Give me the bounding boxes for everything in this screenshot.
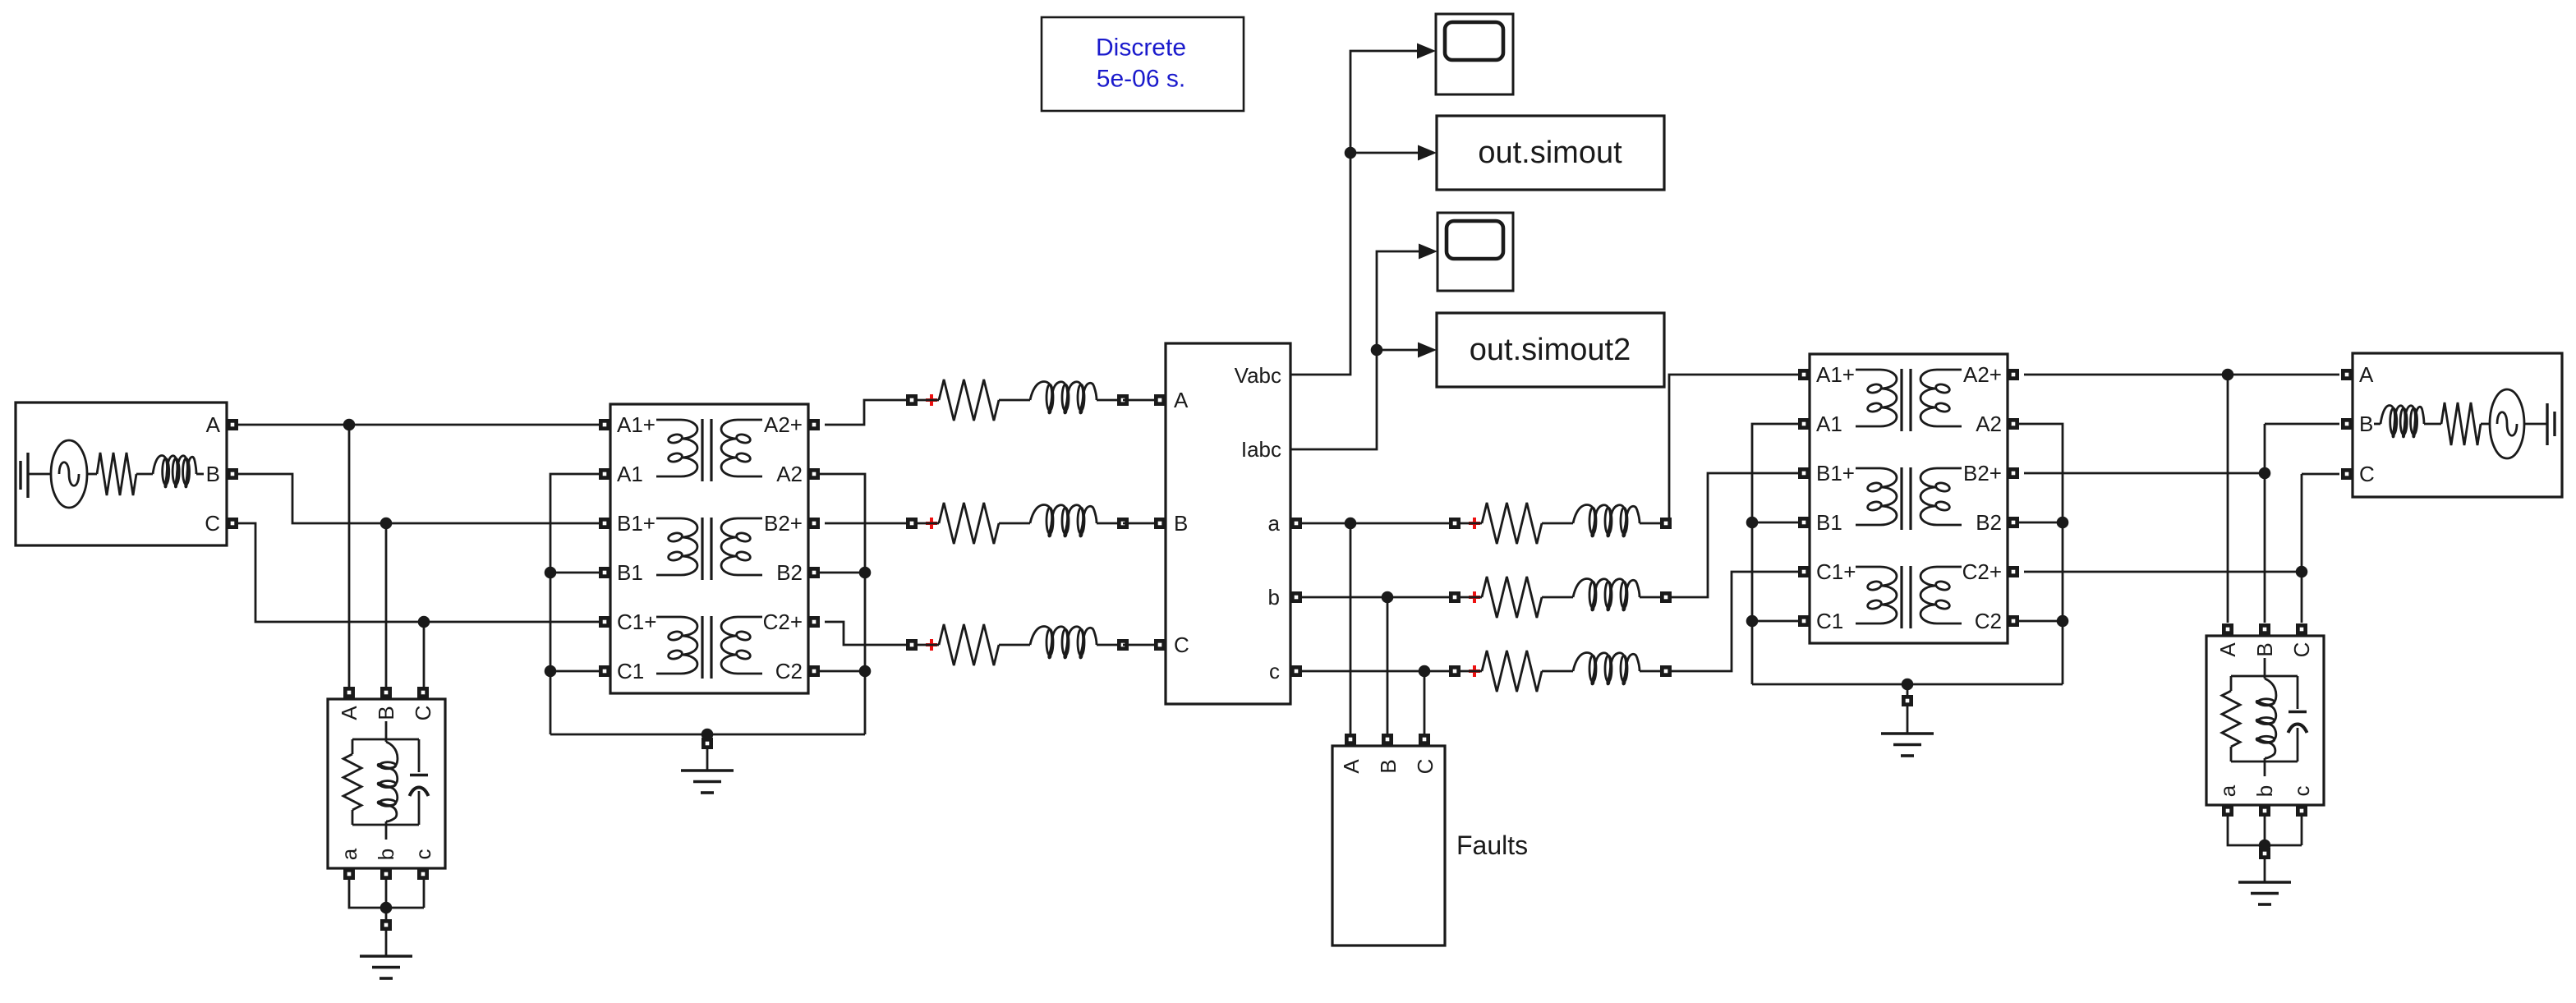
measurement label a bbox=[1268, 511, 1281, 536]
V1 pin label C bbox=[205, 511, 220, 536]
port C of V1 bbox=[227, 518, 238, 529]
svg-text:A1+: A1+ bbox=[617, 412, 655, 437]
T1 right neutral junction C2 bbox=[819, 665, 871, 678]
three-phase RLC load 1 icon B stub top bbox=[385, 721, 388, 742]
transformer T1 core phase 2 bbox=[702, 518, 711, 580]
ground stem under load2 bbox=[2264, 859, 2266, 882]
battery symbol inside V1 bbox=[21, 453, 51, 498]
wire B riser and drop bbox=[2265, 424, 2339, 623]
transformer T2 labels B1+/B2+ bbox=[1816, 461, 2002, 485]
svg-text:c: c bbox=[2289, 786, 2314, 797]
RL branch phase c resistor bbox=[1482, 651, 1542, 692]
RL branch phase A lead-in wire bbox=[918, 399, 939, 402]
arrow into out.simout bbox=[1418, 145, 1437, 161]
wire RL-C to measurement C bbox=[1123, 644, 1154, 646]
svg-text:C2+: C2+ bbox=[1962, 559, 2002, 584]
wire RL-A to measurement A bbox=[1123, 399, 1154, 402]
T2 ground symbol bbox=[1881, 734, 1934, 756]
junction Iabc bbox=[1371, 344, 1383, 357]
wire RL-B to measurement B bbox=[1123, 522, 1154, 525]
svg-text:B1: B1 bbox=[1816, 510, 1842, 535]
RL branch phase b red plus bbox=[1469, 591, 1480, 603]
measurement port c bbox=[1290, 665, 1302, 677]
measurement port C bbox=[1154, 639, 1166, 651]
measurement port B bbox=[1154, 518, 1166, 529]
transformer T2 left port C1 bbox=[1798, 615, 1810, 627]
svg-text:A: A bbox=[337, 706, 361, 720]
transformer T2 core phase 2 bbox=[1902, 467, 1911, 530]
RL branch phase A resistor bbox=[939, 380, 999, 421]
svg-text:C1+: C1+ bbox=[1816, 559, 1856, 584]
svg-text:C1: C1 bbox=[617, 659, 644, 683]
junction B to load2 bbox=[2259, 467, 2271, 480]
svg-text:C: C bbox=[2359, 462, 2375, 486]
transformer T2 right port C2+ bbox=[2008, 566, 2019, 577]
three-phase RLC load 1 icon capacitor plate bbox=[410, 739, 428, 775]
transformer T2 core phase 3 bbox=[1902, 566, 1911, 628]
T1 left neutral junction B1 bbox=[545, 567, 599, 579]
ground symbol under load2 bbox=[2238, 882, 2291, 904]
T1 ground stem bbox=[706, 749, 709, 771]
svg-text:Faults: Faults bbox=[1456, 830, 1528, 860]
T2 ground port bbox=[1902, 695, 1913, 706]
wire Vabc to scope1 bbox=[1290, 51, 1417, 375]
RL branch phase C mid wire bbox=[999, 644, 1030, 646]
transformer T2 left port B1+ bbox=[1798, 467, 1810, 479]
RL branch phase B resistor bbox=[939, 503, 999, 544]
wire T1.C2+ to RL branch C bbox=[825, 622, 906, 645]
T2 neutral bottom wire bbox=[1752, 683, 2063, 686]
wire c drop to Faults C bbox=[1424, 671, 1426, 734]
transformer T1 right port A2+ bbox=[808, 419, 820, 430]
three-phase RLC load 2 top port A bbox=[2222, 623, 2233, 635]
wire Iabc to scope2 bbox=[1290, 251, 1419, 449]
svg-text:C: C bbox=[2289, 642, 2314, 658]
scope block Scope1 bbox=[1436, 14, 1513, 94]
RL branch phase b resistor bbox=[1482, 577, 1542, 618]
junction phase C to load1 bbox=[418, 616, 430, 628]
RL branch phase B red plus bbox=[926, 518, 937, 529]
Faults port A bbox=[1345, 734, 1356, 745]
transformer T2 primary winding phase 3 bbox=[1856, 567, 1897, 623]
transformer T1 labels B1+/B2+ bbox=[617, 511, 803, 536]
RL branch phase A lead-out wire bbox=[1097, 399, 1117, 402]
RL branch phase C lead-out wire bbox=[1097, 644, 1117, 646]
wire Iabc branch to out.simout2 bbox=[1377, 349, 1418, 352]
transformer T1 labels C1/C2 bbox=[617, 659, 803, 683]
port C of V2 bbox=[2341, 468, 2353, 480]
wire phase B: V1.B to T1.B1+ bbox=[238, 474, 600, 523]
wire phase C drop to load1 C bbox=[423, 622, 425, 687]
transformer T1 left port B1 bbox=[599, 567, 610, 578]
V2 pin label A bbox=[2359, 362, 2374, 387]
wire Vabc branch to out.simout bbox=[1350, 152, 1418, 154]
transformer T2 right port C2 bbox=[2008, 615, 2019, 627]
transformer T1 right port B2+ bbox=[808, 518, 820, 529]
T1 right neutral vertical bbox=[819, 474, 865, 734]
RL branch phase c red plus bbox=[1469, 665, 1480, 677]
AC source symbol inside V2 bbox=[2490, 389, 2524, 458]
svg-text:A: A bbox=[1174, 388, 1189, 412]
load1 neutral junction bbox=[380, 902, 393, 919]
svg-text:A1: A1 bbox=[617, 462, 643, 486]
out.simout2 block bbox=[1437, 313, 1664, 387]
RL branch phase B lead-out wire bbox=[1097, 522, 1117, 525]
transformer T2 labels C1/C2 bbox=[1816, 609, 2002, 633]
svg-text:Vabc: Vabc bbox=[1235, 363, 1281, 388]
RL branch phase c right port bbox=[1660, 665, 1672, 677]
transformer T1 secondary winding phase 1 bbox=[721, 420, 762, 476]
transformer T1 labels C1+/C2+ bbox=[617, 610, 803, 634]
three-phase RLC load 2 bottom port c bbox=[2296, 805, 2307, 817]
transformer T1 secondary winding phase 2 bbox=[721, 518, 762, 575]
transformer T2 right port B2 bbox=[2008, 517, 2019, 528]
svg-text:c: c bbox=[411, 849, 435, 860]
svg-text:a: a bbox=[337, 848, 361, 860]
transformer T1 labels A1+/A2+ bbox=[617, 412, 803, 437]
svg-text:B2: B2 bbox=[1976, 510, 2002, 535]
RL branch phase b inductor bbox=[1573, 579, 1640, 611]
svg-text:A: A bbox=[206, 412, 221, 437]
three-phase RLC load 2 icon bottom rail bbox=[2231, 761, 2298, 763]
three-phase RLC load 1 bottom port c bbox=[417, 868, 429, 880]
arrow into out.simout2 bbox=[1418, 343, 1437, 358]
svg-text:Discrete: Discrete bbox=[1096, 35, 1186, 62]
RL branch phase c lead-in wire bbox=[1460, 670, 1482, 673]
measurement label Iabc bbox=[1241, 437, 1281, 462]
junction A to load2 bbox=[2222, 369, 2234, 381]
three-phase RLC load 1 top labels A B C bbox=[337, 706, 435, 721]
transformer T2 secondary winding phase 3 bbox=[1920, 567, 1962, 623]
three-phase RLC load 2 bottom port b bbox=[2259, 805, 2270, 817]
transformer T1 secondary winding phase 3 bbox=[721, 617, 762, 674]
load1 neutral wires bbox=[349, 880, 424, 908]
transformer T2 left port B1 bbox=[1798, 517, 1810, 528]
svg-text:c: c bbox=[1269, 659, 1280, 683]
T2 left neutral junction C1 bbox=[1746, 615, 1798, 628]
transformer T1 labels B1/B2 bbox=[617, 560, 803, 585]
svg-text:C1: C1 bbox=[1816, 609, 1843, 633]
junction b to Faults bbox=[1382, 591, 1394, 604]
junction a to Faults bbox=[1345, 518, 1357, 530]
three-phase RLC load 1 top port C bbox=[417, 687, 429, 698]
wire T2.B2+ row bbox=[2024, 472, 2265, 475]
transformer T2 right port B2+ bbox=[2008, 467, 2019, 479]
three-phase RLC load 2 bottom labels a b c bbox=[2215, 784, 2314, 797]
junction c to Faults bbox=[1419, 665, 1431, 678]
RL branch phase C red plus bbox=[926, 639, 937, 651]
svg-text:B1+: B1+ bbox=[1816, 461, 1855, 485]
port A of V2 bbox=[2341, 369, 2353, 380]
three-phase RLC load 1 bottom port a bbox=[343, 868, 355, 880]
svg-text:A1: A1 bbox=[1816, 412, 1842, 436]
T1 right neutral junction B2 bbox=[819, 567, 871, 579]
three-phase RLC load 2 icon inductor L bbox=[2256, 679, 2276, 761]
transformer T2 labels A1+/A2+ bbox=[1816, 362, 2002, 387]
wire T2.C2+ row bbox=[2024, 571, 2302, 573]
junction C to load2 bbox=[2296, 566, 2308, 578]
wire a drop to Faults A bbox=[1350, 523, 1352, 734]
svg-text:A2+: A2+ bbox=[764, 412, 803, 437]
svg-text:B2+: B2+ bbox=[764, 511, 803, 536]
T2 neutral junction to ground bbox=[1902, 679, 1914, 695]
wire phase A: V1.A to T1.A1+ bbox=[238, 424, 600, 426]
RL branch phase a left port bbox=[1449, 518, 1460, 529]
transformer T2 secondary winding phase 2 bbox=[1920, 468, 1962, 525]
three-phase RLC load 1 icon B stub bottom bbox=[385, 825, 388, 840]
three-phase source block V1 bbox=[16, 403, 227, 545]
svg-text:B: B bbox=[1174, 511, 1188, 536]
battery symbol inside V2 bbox=[2524, 403, 2555, 445]
svg-text:a: a bbox=[1268, 511, 1281, 536]
wire phase A drop to load1 A bbox=[348, 425, 351, 687]
measurement label B bbox=[1174, 511, 1188, 536]
three-phase RLC load 2 top port C bbox=[2296, 623, 2307, 635]
Faults labels A B C bbox=[1339, 759, 1437, 775]
T1 left neutral junction C1 bbox=[545, 665, 599, 678]
transformer T2 labels C1+/C2+ bbox=[1816, 559, 2002, 584]
svg-text:B: B bbox=[2252, 642, 2277, 656]
svg-text:A: A bbox=[2359, 362, 2374, 387]
RL branch phase B left port bbox=[906, 518, 918, 529]
three-phase RLC load 2 top port B bbox=[2259, 623, 2270, 635]
transformer T1 left port C1+ bbox=[599, 616, 610, 628]
svg-text:5e-06 s.: 5e-06 s. bbox=[1097, 66, 1185, 93]
RL branch phase B mid wire bbox=[999, 522, 1030, 525]
transformer T2 primary winding phase 1 bbox=[1856, 370, 1897, 426]
svg-text:C1+: C1+ bbox=[617, 610, 656, 634]
wire phase B drop to load1 B bbox=[385, 523, 388, 687]
RL branch phase B inductor bbox=[1030, 505, 1097, 537]
svg-text:B: B bbox=[374, 706, 398, 720]
svg-text:C: C bbox=[411, 706, 435, 721]
wire C riser and drop bbox=[2302, 474, 2339, 623]
RL branch phase c mid wire bbox=[1542, 670, 1573, 673]
T2 left neutral junction B1 bbox=[1746, 517, 1798, 529]
measurement label Vabc bbox=[1235, 363, 1281, 388]
RL branch phase a lead-in wire bbox=[1460, 522, 1482, 525]
port B of V1 bbox=[227, 468, 238, 480]
wire phase C: V1.C to T1.C1+ bbox=[238, 523, 600, 622]
transformer T2 right port A2 bbox=[2008, 418, 2019, 430]
Faults port C bbox=[1419, 734, 1430, 745]
measurement port A bbox=[1154, 394, 1166, 406]
measurement port a bbox=[1290, 518, 1302, 529]
RL branch phase c lead-out wire bbox=[1640, 670, 1660, 673]
RL branch phase A left port bbox=[906, 394, 918, 406]
port B of V2 bbox=[2341, 418, 2353, 430]
powergui block (Discrete 5e-06 s.) bbox=[1042, 17, 1244, 111]
arrow into scope2 bbox=[1419, 244, 1437, 260]
RL branch phase A right port bbox=[1117, 394, 1129, 406]
measurement label c bbox=[1269, 659, 1280, 683]
RL branch phase b left port bbox=[1449, 591, 1460, 603]
V1 pin label A bbox=[206, 412, 221, 437]
three-phase RLC load 2 icon top rail bbox=[2231, 675, 2298, 678]
Faults block box bbox=[1332, 746, 1445, 945]
T2 ground stem bbox=[1907, 706, 1909, 734]
three-phase RLC load 2 top labels A B C bbox=[2215, 642, 2314, 658]
RL branch phase c inductor bbox=[1573, 653, 1640, 685]
svg-text:Iabc: Iabc bbox=[1241, 437, 1281, 462]
ground port under load1 bbox=[380, 919, 392, 931]
RL branch phase C resistor bbox=[939, 624, 999, 665]
svg-text:a: a bbox=[2215, 784, 2240, 797]
RL branch phase C lead-in wire bbox=[918, 644, 939, 646]
three-phase RLC load 1 icon resistor R bbox=[343, 739, 361, 825]
T1 left neutral vertical bbox=[550, 474, 599, 734]
transformer T2 box bbox=[1810, 354, 2008, 643]
RL branch phase b mid wire bbox=[1542, 596, 1573, 599]
three-phase RLC load 2 icon resistor R bbox=[2222, 676, 2240, 761]
transformer T1 right port C2+ bbox=[808, 616, 820, 628]
transformer T2 left port A1+ bbox=[1798, 369, 1810, 380]
transformer T2 secondary winding phase 1 bbox=[1920, 370, 1962, 426]
RL branch phase C inductor bbox=[1030, 627, 1097, 659]
T1 neutral bottom wire bbox=[550, 734, 865, 736]
transformer T1 right port A2 bbox=[808, 468, 820, 480]
svg-text:B2+: B2+ bbox=[1963, 461, 2002, 485]
svg-text:A2+: A2+ bbox=[1963, 362, 2002, 387]
series inductor inside V2 bbox=[2374, 406, 2441, 438]
three-phase RLC load 2 icon arrow bbox=[2288, 725, 2307, 762]
three-phase RLC load 2 bottom port a bbox=[2222, 805, 2233, 817]
transformer T1 primary winding phase 3 bbox=[656, 617, 697, 674]
transformer T1 left port C1 bbox=[599, 665, 610, 677]
T1 neutral junction to ground bbox=[701, 729, 714, 741]
T2 left neutral vertical bbox=[1752, 424, 1798, 684]
series inductor inside V1 bbox=[153, 456, 204, 488]
RL branch phase b right port bbox=[1660, 591, 1672, 603]
transformer T1 right port C2 bbox=[808, 665, 820, 677]
wire T1.A2+ to RL branch A bbox=[825, 400, 906, 425]
RL branch phase a right port bbox=[1660, 518, 1672, 529]
out.simout block bbox=[1437, 116, 1664, 190]
RL branch phase A red plus bbox=[926, 394, 937, 406]
svg-text:C2: C2 bbox=[775, 659, 803, 683]
transformer T2 primary winding phase 2 bbox=[1856, 468, 1897, 525]
ground symbol under load1 bbox=[360, 956, 412, 978]
RL branch phase B right port bbox=[1117, 518, 1129, 529]
RL branch phase c left port bbox=[1449, 665, 1460, 677]
T2 right neutral vertical bbox=[2018, 424, 2063, 684]
transformer T2 left port A1 bbox=[1798, 418, 1810, 430]
RL branch phase B lead-in wire bbox=[918, 522, 939, 525]
svg-text:B: B bbox=[206, 462, 220, 486]
RL branch phase a red plus bbox=[1469, 518, 1480, 529]
wire T1.B2+ to RL branch B bbox=[825, 522, 906, 525]
svg-text:C: C bbox=[205, 511, 220, 536]
RL branch phase b lead-in wire bbox=[1460, 596, 1482, 599]
scope block Scope2 bbox=[1437, 213, 1513, 291]
transformer T1 box bbox=[610, 404, 808, 693]
RL branch phase C left port bbox=[906, 639, 918, 651]
V1 pin label B bbox=[206, 462, 220, 486]
svg-text:A2: A2 bbox=[776, 462, 803, 486]
svg-text:b: b bbox=[374, 849, 398, 860]
RL branch phase b lead-out wire bbox=[1640, 596, 1660, 599]
svg-text:C2+: C2+ bbox=[763, 610, 803, 634]
wire a row bbox=[1302, 522, 1449, 525]
three-phase RLC load 2 icon B stub top bbox=[2264, 658, 2266, 679]
T1 ground symbol bbox=[681, 771, 734, 793]
AC source symbol inside V1 bbox=[51, 440, 87, 508]
RL branch phase a inductor bbox=[1573, 505, 1640, 537]
svg-text:b: b bbox=[2252, 785, 2277, 797]
transformer T1 right port B2 bbox=[808, 567, 820, 578]
transformer T1 primary winding phase 1 bbox=[656, 420, 697, 476]
svg-text:A1+: A1+ bbox=[1816, 362, 1855, 387]
transformer T2 right port A2+ bbox=[2008, 369, 2019, 380]
transformer T1 left port A1 bbox=[599, 468, 610, 480]
svg-text:B1: B1 bbox=[617, 560, 643, 585]
load2 neutral wires bbox=[2228, 817, 2302, 845]
three-phase RLC load 1 icon inductor L bbox=[378, 742, 398, 825]
svg-text:B: B bbox=[2359, 412, 2373, 436]
wire T2.A2+ row bbox=[2024, 374, 2339, 376]
measurement label A bbox=[1174, 388, 1189, 412]
load2 neutral junction bbox=[2259, 840, 2271, 852]
series resistor inside V2 bbox=[2441, 403, 2490, 445]
transformer T2 core phase 1 bbox=[1902, 369, 1911, 431]
svg-text:B2: B2 bbox=[776, 560, 803, 585]
three-phase RLC load 1 icon top rail bbox=[352, 738, 419, 741]
wire A drop to load2 A bbox=[2227, 375, 2229, 623]
transformer T1 primary winding phase 2 bbox=[656, 518, 697, 575]
three-phase source block V2 bbox=[2353, 353, 2562, 497]
junction phase A to load1 bbox=[343, 419, 356, 431]
transformer T1 left port B1+ bbox=[599, 518, 610, 529]
svg-text:A2: A2 bbox=[1976, 412, 2002, 436]
three-phase RLC load 1 icon bottom rail bbox=[352, 824, 419, 826]
junction phase B to load1 bbox=[380, 518, 393, 530]
transformer T2 labels B1/B2 bbox=[1816, 510, 2002, 535]
wire RL-b to T2.B1+ bbox=[1672, 473, 1798, 597]
Faults port B bbox=[1382, 734, 1393, 745]
RL branch phase A inductor bbox=[1030, 382, 1097, 414]
wire b row bbox=[1302, 596, 1449, 599]
three-phase V-I measurement block bbox=[1166, 343, 1290, 704]
transformer T2 left port C1+ bbox=[1798, 566, 1810, 577]
port A of V1 bbox=[227, 419, 238, 430]
RL branch phase a lead-out wire bbox=[1640, 522, 1660, 525]
three-phase RLC load 1 icon arrow bbox=[410, 788, 429, 826]
three-phase RLC load 1 top port A bbox=[343, 687, 355, 698]
svg-text:C: C bbox=[1413, 759, 1437, 775]
three-phase RLC load 2 box bbox=[2206, 636, 2324, 805]
T2 right neutral junction B2 bbox=[2018, 517, 2068, 529]
three-phase RLC load 1 box bbox=[328, 699, 445, 868]
three-phase RLC load 2 icon B stub bottom bbox=[2264, 761, 2266, 776]
svg-text:B: B bbox=[1376, 759, 1401, 773]
three-phase RLC load 1 top port B bbox=[380, 687, 392, 698]
RL branch phase C right port bbox=[1117, 639, 1129, 651]
ground stem under load1 bbox=[385, 931, 388, 956]
svg-text:out.simout: out.simout bbox=[1478, 136, 1622, 170]
T1 ground port bbox=[701, 738, 713, 749]
three-phase RLC load 1 bottom labels a b c bbox=[337, 848, 435, 860]
transformer T2 labels A1/A2 bbox=[1816, 412, 2002, 436]
svg-text:b: b bbox=[1268, 585, 1280, 610]
transformer T1 labels A1/A2 bbox=[617, 462, 803, 486]
Faults name label bbox=[1456, 830, 1528, 860]
ground port under load2 bbox=[2259, 848, 2270, 859]
wire RL-a to T2.A1+ bbox=[1669, 375, 1798, 523]
RL branch phase a mid wire bbox=[1542, 522, 1573, 525]
measurement port b bbox=[1290, 591, 1302, 603]
three-phase RLC load 2 icon capacitor plate bbox=[2288, 676, 2307, 712]
transformer T1 core phase 1 bbox=[702, 419, 711, 481]
